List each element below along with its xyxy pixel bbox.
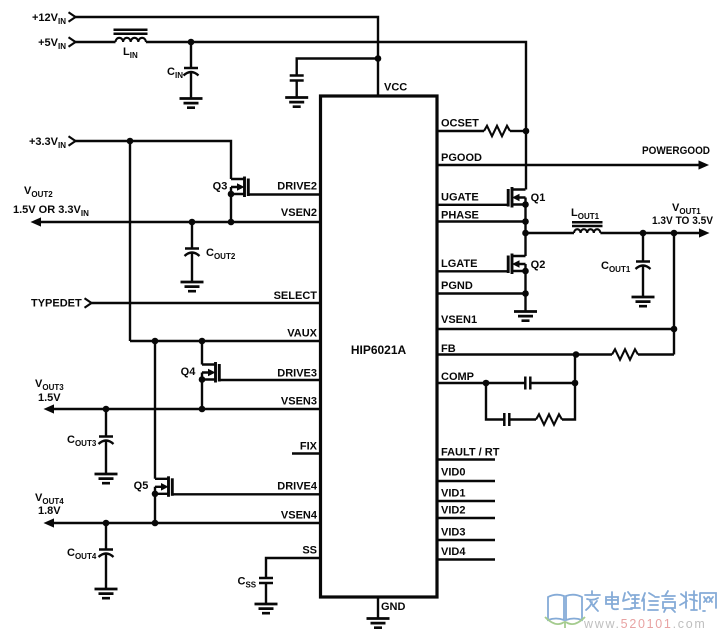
node VAUX feed junction [127, 138, 134, 145]
svg-text:+5VIN: +5VIN [38, 37, 66, 51]
svg-text:VID0: VID0 [441, 467, 465, 479]
wire COMP lower branch [486, 383, 536, 420]
svg-text:POWERGOOD: POWERGOOD [642, 145, 710, 157]
svg-text:VID4: VID4 [441, 546, 466, 558]
node Q3 source on VSEN2 [228, 219, 235, 226]
svg-text:Q1: Q1 [531, 192, 546, 204]
svg-text:1.3V TO 3.5V: 1.3V TO 3.5V [652, 215, 714, 227]
wire LGATE to Q2 gate [437, 270, 508, 272]
wire +5V rail to OCSET node [146, 42, 526, 131]
wire COMP line [437, 382, 575, 384]
node Q5 feed on VAUX [152, 338, 159, 345]
ground CIN [180, 99, 203, 108]
output arrow VOUT2 [31, 217, 42, 226]
wire SS to CSS [266, 558, 320, 604]
svg-text:UGATE: UGATE [441, 192, 479, 204]
input port chevron +12VIN [69, 12, 76, 21]
svg-text:Q4: Q4 [181, 366, 197, 378]
svg-text:VID3: VID3 [441, 527, 465, 539]
wire VAUX feed vertical [129, 141, 131, 341]
resistor OCSET [484, 126, 510, 136]
node VCC bypass junction [375, 55, 382, 62]
op-amp U1 HIP6021A body [321, 96, 438, 597]
svg-text:SS: SS [302, 545, 317, 557]
capacitor CIN [184, 67, 198, 70]
node LOUT1 junction [522, 230, 529, 237]
svg-text:COMP: COMP [441, 371, 474, 383]
svg-text:VSEN1: VSEN1 [441, 314, 477, 326]
wire DRIVE3 to Q4 gate [219, 379, 320, 381]
wire VID2 stub [437, 517, 495, 519]
svg-text:FB: FB [441, 343, 456, 355]
node Q4 feed on VAUX [199, 338, 206, 345]
svg-text:+12VIN: +12VIN [32, 12, 66, 26]
ground COUT3 [95, 474, 118, 483]
svg-text:HIP6021A: HIP6021A [351, 343, 407, 357]
node COUT1 junction [640, 230, 647, 237]
wire +5V rail left of LIN [76, 41, 116, 43]
svg-text:VCC: VCC [384, 82, 407, 94]
wire LOUT1 to VOUT1 [600, 232, 699, 234]
svg-text:VOUT2: VOUT2 [24, 185, 53, 199]
wire TYPEDET to SELECT [92, 302, 321, 304]
wire Q2 source down [524, 271, 526, 312]
wire Q1 drain feed [525, 131, 527, 190]
resistor COMP lower [536, 414, 562, 424]
node FB comp junction [573, 351, 580, 358]
node Q5 source on VSEN4 [152, 520, 159, 527]
svg-text:VSEN2: VSEN2 [281, 207, 317, 219]
wire VID4 stub [437, 558, 495, 560]
wire COUT3 lead [105, 409, 107, 474]
capacitor COUT3 [99, 435, 113, 438]
input port chevron TYPEDET [85, 298, 92, 307]
wire COMP B to FB [574, 355, 576, 384]
wire PGND line [437, 292, 526, 294]
node COMP A [483, 380, 490, 387]
svg-text:1.8V: 1.8V [38, 505, 61, 517]
wire Q4 drain feed [201, 341, 203, 365]
svg-text:COUT4: COUT4 [67, 547, 97, 561]
wire VSEN2 line [40, 221, 320, 223]
wire FB line [437, 353, 612, 355]
watermark logo book icon [545, 595, 585, 628]
wire VID0 stub [437, 480, 495, 482]
svg-text:FIX: FIX [300, 441, 318, 453]
svg-text:COUT2: COUT2 [206, 247, 236, 261]
wire resistor to +5V rail [510, 130, 526, 132]
transistor Q4 [202, 365, 216, 380]
svg-text:OCSET: OCSET [441, 118, 479, 130]
ground COUT4 [95, 589, 118, 598]
ground COUT2 [181, 282, 204, 291]
wire OCSET to resistor [437, 130, 484, 132]
svg-text:+3.3VIN: +3.3VIN [29, 136, 66, 150]
wire COUT2 lead [191, 222, 193, 282]
wire UGATE to Q1 gate [437, 204, 508, 206]
svg-text:VSEN3: VSEN3 [281, 396, 317, 408]
svg-text:PHASE: PHASE [441, 210, 479, 222]
input port chevron +3.3VIN [69, 136, 76, 145]
svg-text:SELECT: SELECT [274, 290, 318, 302]
svg-text:VOUT4: VOUT4 [35, 492, 64, 506]
svg-text:CSS: CSS [238, 576, 257, 590]
svg-text:GND: GND [381, 601, 406, 613]
node PGND junction [522, 290, 529, 297]
inductor LIN [116, 38, 146, 42]
inductor LOUT1 [574, 229, 600, 233]
capacitor COUT1 [636, 260, 650, 263]
capacitor COUT2 [185, 247, 199, 250]
svg-text:LIN: LIN [123, 46, 138, 60]
capacitor VCC bypass [290, 76, 304, 81]
transistor Q5 [155, 479, 169, 494]
wire DRIVE2 to Q3 gate [248, 193, 320, 195]
svg-text:VID2: VID2 [441, 505, 465, 517]
svg-text:COUT3: COUT3 [67, 434, 97, 448]
wire VOUT1 sense vertical [673, 233, 675, 355]
node VOUT1 sense junction [671, 230, 678, 237]
node COUT4 junction [103, 520, 110, 527]
wire VID1 stub [437, 500, 495, 502]
svg-text:DRIVE3: DRIVE3 [277, 368, 317, 380]
output arrow POWERGOOD [699, 160, 710, 169]
svg-text:VAUX: VAUX [287, 328, 317, 340]
watermark text 家电维修资料网 [585, 591, 716, 612]
wire COUT1 lead [642, 233, 644, 297]
svg-text:COUT1: COUT1 [601, 260, 631, 274]
node VSEN1 sense junction [671, 326, 678, 333]
wire VCC bypass branch [297, 59, 378, 98]
svg-text:Q3: Q3 [213, 181, 228, 193]
svg-text:DRIVE4: DRIVE4 [277, 481, 318, 493]
svg-text:DRIVE2: DRIVE2 [277, 181, 317, 193]
wire PHASE line [437, 220, 526, 222]
output arrow VOUT4 [44, 518, 55, 527]
svg-text:LGATE: LGATE [441, 258, 477, 270]
wire GND stub [377, 597, 379, 619]
transistor Q3 [231, 179, 245, 194]
svg-text:LOUT1: LOUT1 [571, 207, 600, 221]
svg-text:1.5V OR 3.3VIN: 1.5V OR 3.3VIN [13, 204, 89, 218]
node COMP B [572, 380, 579, 387]
wire DRIVE4 to Q5 gate [172, 493, 320, 495]
wire Q3 source to VSEN2 [230, 194, 232, 222]
wire VID3 stub [437, 539, 495, 541]
svg-text:FAULT / RT: FAULT / RT [441, 447, 500, 459]
wire Q5 drain feed [154, 341, 156, 479]
svg-text:VSEN4: VSEN4 [281, 510, 318, 522]
ground VCC bypass [285, 98, 308, 107]
svg-text:Q5: Q5 [134, 480, 149, 492]
wire CIN lead [190, 42, 192, 99]
wire FIX stub [292, 452, 320, 454]
wire Q4 source to VSEN3 [201, 380, 203, 410]
wire PGOOD line [437, 164, 699, 166]
wire VSEN4 line [53, 522, 320, 524]
ground Q2 source [514, 312, 537, 321]
output arrow VOUT3 [44, 404, 55, 413]
svg-text:CIN: CIN [167, 66, 183, 80]
svg-text:VOUT1: VOUT1 [672, 202, 701, 216]
svg-text:1.5V: 1.5V [38, 392, 61, 404]
wire +3.3V rail to Q3 drain [76, 141, 232, 179]
node COUT3 junction [103, 406, 110, 413]
svg-text:www.520101.com: www.520101.com [583, 617, 706, 631]
ground IC GND [367, 619, 390, 628]
wire VSEN1 line [437, 328, 674, 330]
capacitor COMP lower [504, 413, 509, 426]
svg-text:TYPEDET: TYPEDET [31, 298, 82, 310]
resistor FB [612, 349, 638, 359]
node COUT2 junction [189, 219, 196, 226]
ground COUT1 [632, 297, 655, 306]
svg-text:Q2: Q2 [531, 259, 546, 271]
capacitor CSS [259, 578, 273, 583]
node PHASE junction [522, 218, 529, 225]
wire COUT4 lead [105, 523, 107, 589]
svg-text:VID1: VID1 [441, 488, 465, 500]
transistor Q2 [512, 256, 526, 271]
output arrow VOUT1 [699, 228, 710, 237]
wire phase node to LOUT1 [526, 232, 575, 234]
wire VSEN3 line [53, 408, 320, 410]
svg-text:VOUT3: VOUT3 [35, 378, 64, 392]
ground CSS [255, 604, 278, 613]
transistor Q1 [512, 190, 526, 205]
wire +12V rail to VCC [76, 17, 379, 96]
wire COMP lower return [562, 383, 575, 420]
node CIN junction [188, 39, 195, 46]
capacitor COUT4 [99, 548, 113, 551]
node OCSET junction [523, 128, 530, 135]
capacitor COMP upper [525, 377, 530, 390]
wire Q1 source down [524, 205, 526, 257]
svg-text:PGOOD: PGOOD [441, 152, 482, 164]
wire FB resistor to sense [638, 353, 674, 355]
wire FAULT/RT stub [437, 458, 495, 460]
wire VAUX line [130, 340, 320, 342]
svg-text:PGND: PGND [441, 280, 473, 292]
input port chevron +5VIN [69, 37, 76, 46]
wire Q5 source to VSEN4 [154, 494, 156, 523]
node Q4 source on VSEN3 [199, 406, 206, 413]
